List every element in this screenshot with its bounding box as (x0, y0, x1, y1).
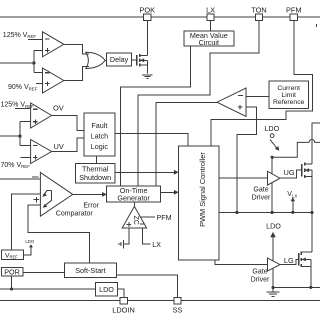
transistor M2 (high-side MOSFET) (302, 162, 312, 178)
wire FB input to comparators A/B (0, 50, 43, 72)
pin TON (251, 5, 266, 20)
comparator A (125% VREF) (43, 32, 64, 57)
comparator U3 (error comparator) (40, 172, 72, 216)
Fault Latch Logic block (84, 113, 115, 156)
ground (POK MOSFET) (142, 75, 152, 79)
wire Fault Latch Logic to Thermal Shutdown (95, 156, 97, 163)
junction UG driver supply (271, 156, 274, 159)
svg-text:Latch: Latch (91, 132, 109, 141)
svg-text:POR: POR (4, 267, 20, 276)
Soft-Start block (65, 263, 117, 278)
wire M3 source to ground line (310, 267, 312, 288)
error comparator minus sign (32, 176, 38, 178)
error comparator plus sign (34, 197, 39, 202)
svg-text:Logic: Logic (91, 142, 109, 151)
VREF block (2, 250, 24, 259)
wire 70% VREF to UV plus input (21, 156, 31, 158)
wire ZC plus input to offset source (124, 228, 129, 244)
buffer LG driver (268, 258, 281, 271)
label Error Comparator (56, 202, 100, 217)
svg-text:125% VREF: 125% VREF (1, 102, 35, 109)
wire Fault Latch Logic to PWM Signal Controller (115, 134, 188, 147)
wire M1 source to ground (146, 65, 148, 73)
POR block (2, 267, 23, 276)
wire POR to Soft-Start (23, 271, 65, 273)
arrow LDO supply to LG driver (270, 232, 276, 261)
PWM Signal Controller block (179, 146, 220, 260)
wire TON pin to On-Time Generator (138, 20, 259, 186)
wire Delay to POK MOSFET gate (132, 59, 137, 61)
wire switch to UG driver supply (271, 157, 273, 174)
svg-text:TON: TON (251, 5, 266, 14)
wire FB to OV/UV comparators (0, 122, 31, 146)
junction M3 source ground (309, 286, 312, 289)
comparator UV (31, 140, 52, 164)
svg-text:LG: LG (284, 256, 294, 265)
svg-text:LDO: LDO (264, 124, 279, 133)
pin LX (206, 5, 215, 20)
junction UG return on LX bus (271, 211, 274, 214)
svg-text:Driver: Driver (252, 194, 271, 201)
OR gate U1 (86, 52, 105, 68)
svg-text:ZC: ZC (132, 216, 139, 225)
top supply rail (0, 16, 320, 18)
wire OV output to Fault Latch Logic (52, 116, 84, 131)
wire boot to right edge (hop over VIN rail) (272, 140, 320, 158)
wire PWM Signal Controller to UG driver (219, 177, 268, 179)
cut-off label mark top right (315, 24, 317, 27)
svg-text:Gate: Gate (253, 186, 268, 193)
Current Limit Reference block (269, 81, 309, 108)
svg-text:Circuit: Circuit (199, 38, 219, 47)
transistor M3 (low-side MOSFET) (299, 252, 312, 268)
svg-text:Gate: Gate (252, 269, 267, 276)
wire FB to error comparator minus (0, 178, 40, 180)
switch SW1 (LDO to UG driver) (270, 134, 279, 151)
label Gate Driver (upper) (252, 186, 271, 201)
arrow VLX (LX node voltage) (291, 197, 295, 212)
wire OR gate to Delay (105, 59, 106, 61)
comparator B (90% VREF) (43, 68, 64, 93)
svg-text:LX: LX (206, 5, 215, 14)
svg-text:70% VREF: 70% VREF (1, 162, 31, 169)
svg-text:LDO: LDO (25, 239, 34, 244)
svg-text:SS: SS (173, 305, 183, 314)
buffer UG driver (268, 171, 281, 185)
wire U2 plus input to LX bus (237, 107, 257, 212)
wire LX bus (219, 211, 312, 213)
wire U2 output to On-Time Generator (156, 103, 217, 187)
svg-text:Fault: Fault (91, 121, 107, 130)
error comparator internal input arrows (42, 191, 51, 208)
offset voltage source (battery) (118, 240, 123, 248)
wire Thermal Shutdown to PWM Signal Controller (115, 171, 175, 173)
junction POR LDO rail (10, 287, 13, 290)
wire POK pin to M1 drain (146, 20, 148, 55)
pin SS (173, 298, 183, 315)
wire PFM pin to PWM Signal Controller (211, 20, 313, 146)
junction current-limit sense on LX bus (235, 211, 238, 214)
wire Soft-Start to error comparator plus 2 (28, 205, 89, 263)
wire LX pin to Mean Value Circuit (210, 20, 212, 31)
wire ZC to PFM label (140, 216, 155, 218)
svg-text:LX: LX (152, 240, 161, 249)
wire VIN rail to M2 drain (312, 123, 320, 164)
wire ZC minus input to LX (142, 228, 150, 244)
bottom IO bus (0, 300, 320, 302)
svg-text:PFM: PFM (157, 213, 172, 222)
wire ground line to right edge (273, 286, 320, 288)
wire error comparator output to On-Time Generator (73, 193, 103, 195)
pin PFM (286, 5, 302, 20)
Thermal Shutdown block (75, 163, 115, 183)
junction LG return ground (271, 286, 274, 289)
junction FB OV/UV (18, 135, 21, 138)
svg-text:Current: Current (277, 85, 300, 92)
svg-text:Error: Error (83, 202, 99, 209)
wire comparator B output to OR gate (64, 67, 89, 81)
On-Time Generator block (107, 186, 161, 202)
wire LX bus to M3 drain (311, 212, 313, 252)
LDO block (96, 283, 118, 297)
svg-text:UG: UG (284, 168, 295, 177)
wire PWM Signal Controller to LG driver (215, 260, 268, 265)
svg-text:Shutdown: Shutdown (79, 173, 111, 182)
junction VLX arrow on LX bus (291, 211, 294, 214)
wire VREF to LDO supply (23, 247, 31, 255)
label Gate Driver (lower) (251, 269, 270, 284)
wire LDO output rail (0, 288, 96, 290)
wire LDOIN pin to LDO (118, 289, 124, 298)
svg-text:Reference: Reference (273, 99, 305, 106)
wire Mean Value Circuit to On-Time Generator (121, 46, 191, 186)
svg-text:PWM Signal Controller: PWM Signal Controller (198, 152, 207, 227)
svg-text:Limit: Limit (282, 92, 296, 99)
svg-text:LDO: LDO (99, 285, 114, 294)
comparator ZC (zero-cross, PFM) (122, 206, 146, 228)
svg-text:Generator: Generator (117, 194, 150, 203)
svg-text:Driver: Driver (251, 277, 270, 284)
wire UG driver return to LX bus (271, 183, 273, 213)
svg-text:OV: OV (53, 103, 64, 112)
svg-text:LDO: LDO (266, 222, 281, 231)
svg-text:Comparator: Comparator (56, 210, 94, 217)
svg-text:90% VREF: 90% VREF (8, 84, 38, 91)
svg-text:POK: POK (139, 5, 155, 14)
wire POR to LDO rail (11, 276, 13, 289)
wire 125% VREF to comparator A minus input (28, 38, 42, 40)
wire LG driver return to ground (272, 268, 274, 287)
svg-text:PFM: PFM (286, 5, 302, 14)
junction FB comparators (32, 61, 35, 64)
ground (power stage) (267, 287, 280, 296)
wire UV output to Fault Latch Logic (52, 138, 84, 151)
transistor M1 (POK open-drain MOSFET) (137, 54, 148, 67)
wire comparator A output to OR gate (64, 44, 89, 54)
wire ZC output to On-Time Generator (133, 202, 135, 207)
svg-text:125% VREF: 125% VREF (3, 32, 37, 39)
wire UG driver to M2 gate (280, 170, 302, 178)
wire On-Time Generator to PWM Signal Controller (161, 191, 175, 193)
pin POK (139, 5, 155, 20)
svg-text:VLX: VLX (287, 191, 297, 198)
wire U2 minus input to Current Limit Reference (246, 95, 269, 97)
comparator OV (31, 103, 52, 128)
wire 90% VREF to comparator B plus input (36, 83, 43, 85)
svg-text:LDOIN: LDOIN (112, 305, 135, 314)
pin LDOIN (112, 298, 135, 315)
wire 125% VREF to OV minus input (15, 108, 31, 110)
Delay block (107, 53, 132, 66)
wire M2 source to LX bus (311, 176, 313, 212)
comparator U2 (current limit, left-pointing) (217, 88, 246, 117)
junction M2 source on LX bus (310, 211, 313, 214)
svg-text:Delay: Delay (110, 55, 129, 64)
svg-text:UV: UV (54, 142, 64, 151)
wire Soft-Start to SS pin (116, 275, 177, 298)
wire VREF to error comparator plus 1 (11, 194, 40, 250)
svg-text:Soft-Start: Soft-Start (75, 266, 105, 275)
wire LG driver to M3 gate (280, 259, 299, 264)
Mean Value Circuit block (184, 31, 234, 47)
